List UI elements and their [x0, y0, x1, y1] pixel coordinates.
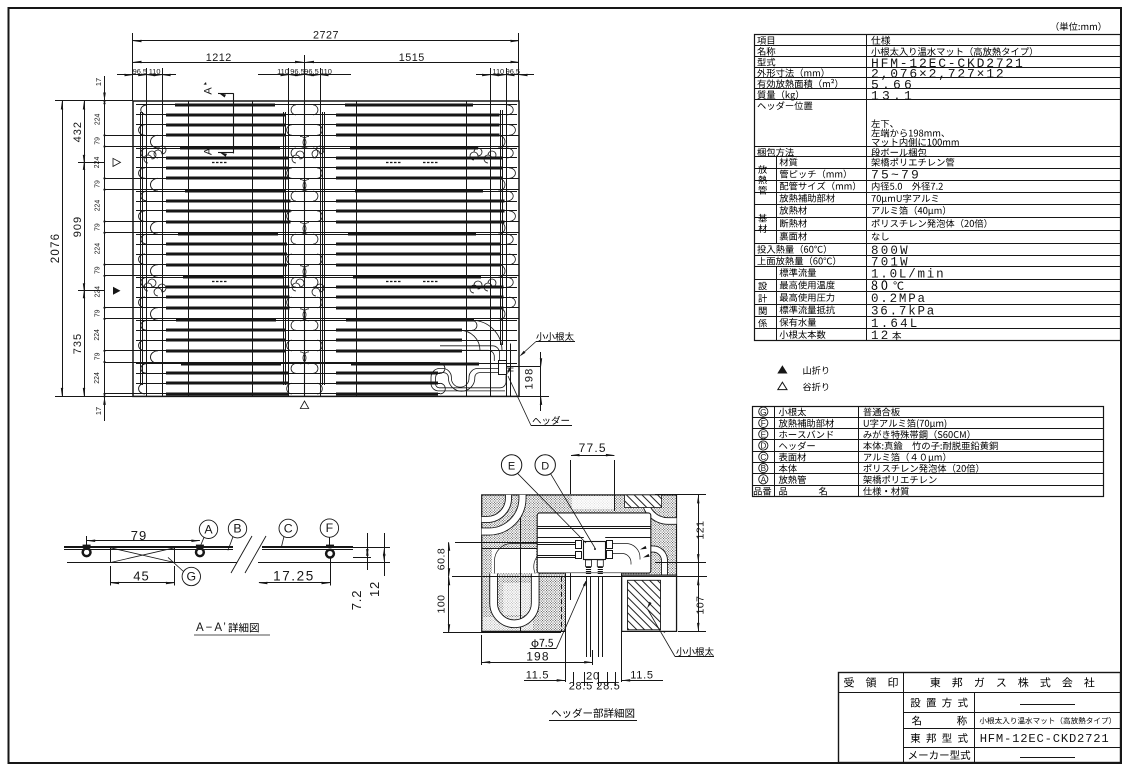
- svg-text:E: E: [761, 430, 767, 439]
- section cut line A-A: [233, 93, 235, 153]
- header detail: joist boundary lines inside: [520, 495, 522, 632]
- svg-text:11.5: 11.5: [630, 670, 653, 682]
- dim 77.5 top: [571, 455, 614, 457]
- dim 107 right: [678, 631, 706, 633]
- svg-text:45: 45: [133, 569, 149, 584]
- svg-text:17: 17: [94, 78, 103, 86]
- dim 2076 left: [62, 101, 64, 396]
- svg-text:75~79: 75~79: [871, 168, 921, 183]
- svg-text:110: 110: [149, 67, 161, 76]
- dim 198 bottom: [482, 662, 593, 664]
- A-A' break marks: [231, 536, 252, 573]
- svg-text:79: 79: [94, 266, 101, 274]
- dim 17 top: [104, 76, 106, 101]
- tubes left curving into U: [495, 543, 538, 573]
- mat plan: heating tube lines with thick aluminium bars: [136, 104, 517, 106]
- svg-text:B: B: [761, 464, 767, 473]
- dim 121 right: [655, 494, 706, 496]
- dim 45: [111, 582, 175, 584]
- svg-text:224: 224: [94, 243, 101, 255]
- dim 79: [87, 540, 200, 542]
- svg-text:F: F: [326, 521, 334, 535]
- dim 60.8 left: [448, 542, 450, 577]
- balloon D: [535, 455, 555, 475]
- svg-text:224: 224: [94, 329, 101, 341]
- dashed fold line: [561, 577, 563, 632]
- dim 100 left: [448, 577, 450, 633]
- title header detail: [552, 710, 561, 716]
- svg-text:G: G: [187, 570, 197, 584]
- unit note (単位:mm): [1057, 22, 1059, 31]
- mat plan: tube u-turn loops right edge: [507, 105, 513, 115]
- small top dims right: [476, 74, 534, 76]
- svg-text:96.5: 96.5: [506, 67, 520, 76]
- mat plan: centre divider: [304, 101, 306, 396]
- balloon G: [182, 567, 200, 585]
- svg-text:C: C: [284, 521, 293, 535]
- svg-text:G: G: [760, 408, 766, 417]
- mat plan: vertical joist lines: [146, 101, 148, 396]
- small top dims 96.5/110 left: [117, 74, 176, 76]
- band6 right u-turns and sweep into header zone: [472, 320, 477, 330]
- svg-text:224: 224: [94, 372, 101, 384]
- svg-text:12: 12: [367, 581, 382, 597]
- mat plan: break dots: [212, 162, 215, 164]
- mat plan: band boundary guide lines: [105, 135, 520, 137]
- recess inner step lines: [537, 526, 651, 528]
- header body D: [584, 542, 606, 560]
- svg-text:2727: 2727: [313, 30, 339, 42]
- svg-text:12: 12: [871, 329, 890, 343]
- mat plan: tube loops left edge: [141, 105, 147, 115]
- svg-text:198: 198: [526, 649, 550, 663]
- mat plan: squiggle S-bends near folds: [144, 151, 156, 163]
- title block table: [839, 673, 1121, 763]
- legend mountain fold: [777, 365, 787, 373]
- header detail: lighter patches: [492, 549, 536, 573]
- svg-text:96.5: 96.5: [290, 67, 304, 76]
- svg-text:432: 432: [72, 121, 84, 142]
- svg-text:110: 110: [320, 67, 332, 76]
- svg-text:79: 79: [94, 309, 101, 317]
- fold mark filled right-pointing triangle: [113, 287, 121, 295]
- svg-text:60.8: 60.8: [436, 548, 448, 570]
- balloon C: [279, 519, 297, 537]
- header connection block in mat: [499, 361, 507, 375]
- svg-text:79: 79: [94, 180, 101, 188]
- dims 7.2 and 12 right: [353, 547, 390, 549]
- svg-text:224: 224: [94, 200, 101, 212]
- header stub to joist strip: [507, 367, 514, 369]
- svg-text:110: 110: [277, 67, 289, 76]
- small top dims centre: [258, 74, 351, 76]
- svg-text:110: 110: [492, 67, 504, 76]
- svg-text:C: C: [760, 453, 766, 462]
- header detail: tube band arc top-right: [645, 495, 677, 521]
- fold mark triangle below mat: [300, 401, 308, 409]
- header detail: right channel around joist: [651, 549, 667, 631]
- svg-text:735: 735: [72, 333, 84, 354]
- tubes right curving down: [612, 544, 640, 560]
- header detail: tube band arcs top-left: [482, 495, 523, 532]
- header detail: big U loop bottom-left: [494, 574, 536, 624]
- header fittings: [576, 541, 582, 549]
- top-right corner notch hatched: [625, 495, 662, 508]
- svg-text:96.5: 96.5: [133, 67, 147, 76]
- balloon E: [501, 455, 521, 475]
- svg-text:7.2: 7.2: [349, 590, 364, 610]
- svg-text:96.5: 96.5: [304, 67, 318, 76]
- svg-text:224: 224: [94, 286, 101, 298]
- mat plan: small joist edge bottom right: [510, 344, 512, 397]
- A-A' tube sections: [83, 548, 91, 556]
- phi 7.5 label: [532, 639, 539, 648]
- svg-text:D: D: [760, 442, 766, 451]
- A-A' section: surfaces: [64, 546, 233, 548]
- svg-text:A−A’: A−A’: [196, 622, 228, 634]
- label header: [533, 418, 541, 424]
- svg-text:79: 79: [94, 352, 101, 360]
- svg-text:121: 121: [695, 520, 707, 539]
- band7 right u-turns: [440, 364, 445, 374]
- svg-text:107: 107: [695, 595, 707, 614]
- balloon A: [199, 520, 217, 538]
- header detail: hatched body: [482, 495, 677, 632]
- svg-text:17: 17: [94, 407, 103, 415]
- tubes from left into header: [537, 542, 575, 544]
- svg-text:1515: 1515: [399, 52, 425, 64]
- svg-text:1212: 1212: [206, 52, 232, 64]
- dim 2727 top: [133, 40, 519, 42]
- svg-text:E: E: [508, 460, 515, 472]
- svg-text:909: 909: [72, 216, 84, 237]
- svg-text:A: A: [204, 522, 213, 536]
- centre horizontal guide: [452, 576, 707, 578]
- svg-text:79: 79: [94, 223, 101, 231]
- parts list table: [753, 407, 1104, 497]
- mat plan view: outline: [133, 101, 519, 396]
- mat plan: tube loops centre divider: [291, 105, 296, 115]
- small-small joist label: [676, 647, 685, 656]
- jtitle: [228, 623, 238, 633]
- svg-text:A: A: [761, 476, 767, 485]
- dim chain 224/79: [104, 101, 106, 396]
- specification table: [755, 35, 1121, 341]
- balloon F: [320, 519, 338, 537]
- svg-text:224: 224: [94, 113, 101, 125]
- svg-text:1.0L/min: 1.0L/min: [871, 267, 945, 281]
- label small-small joist: [536, 332, 545, 341]
- svg-text:B: B: [233, 522, 241, 536]
- balloon B: [228, 520, 246, 538]
- dim 17.25: [259, 582, 330, 584]
- svg-text:100: 100: [436, 594, 448, 613]
- flow arrows: [640, 546, 647, 550]
- svg-text:77.5: 77.5: [579, 441, 607, 455]
- svg-text:13.1: 13.1: [871, 88, 915, 103]
- A' tick top: [204, 82, 207, 85]
- small-small joist hatched: [622, 575, 677, 631]
- svg-text:D: D: [541, 460, 549, 472]
- svg-text:79: 79: [131, 528, 147, 543]
- header nipples below: [586, 560, 592, 567]
- dim chain 432/909/735: [84, 101, 86, 396]
- dim 17 bottom: [104, 396, 106, 421]
- svg-text:HFM-12EC-CKD2721: HFM-12EC-CKD2721: [980, 732, 1110, 746]
- bottom centre slot: [565, 573, 622, 682]
- fold mark hollow right-pointing triangle: [113, 158, 121, 166]
- svg-text:17.25: 17.25: [273, 569, 315, 584]
- svg-text:11.5: 11.5: [526, 670, 549, 682]
- svg-text:224: 224: [94, 157, 101, 169]
- dim 1212 / 1515: [133, 62, 519, 64]
- dim 198 right of mat: [507, 366, 542, 368]
- svg-text:A: A: [203, 147, 215, 155]
- svg-text:198: 198: [524, 368, 536, 390]
- legend valley fold: [778, 382, 787, 389]
- svg-text:A: A: [203, 87, 215, 95]
- header detail: recess: [537, 513, 651, 573]
- header area tube curves: [440, 346, 500, 361]
- A-A' joist box with X: [111, 548, 175, 563]
- svg-text:79: 79: [94, 137, 101, 145]
- svg-text:F: F: [761, 419, 766, 428]
- svg-text:2076: 2076: [50, 233, 62, 263]
- mat plan: riser tube verticals: [140, 112, 142, 385]
